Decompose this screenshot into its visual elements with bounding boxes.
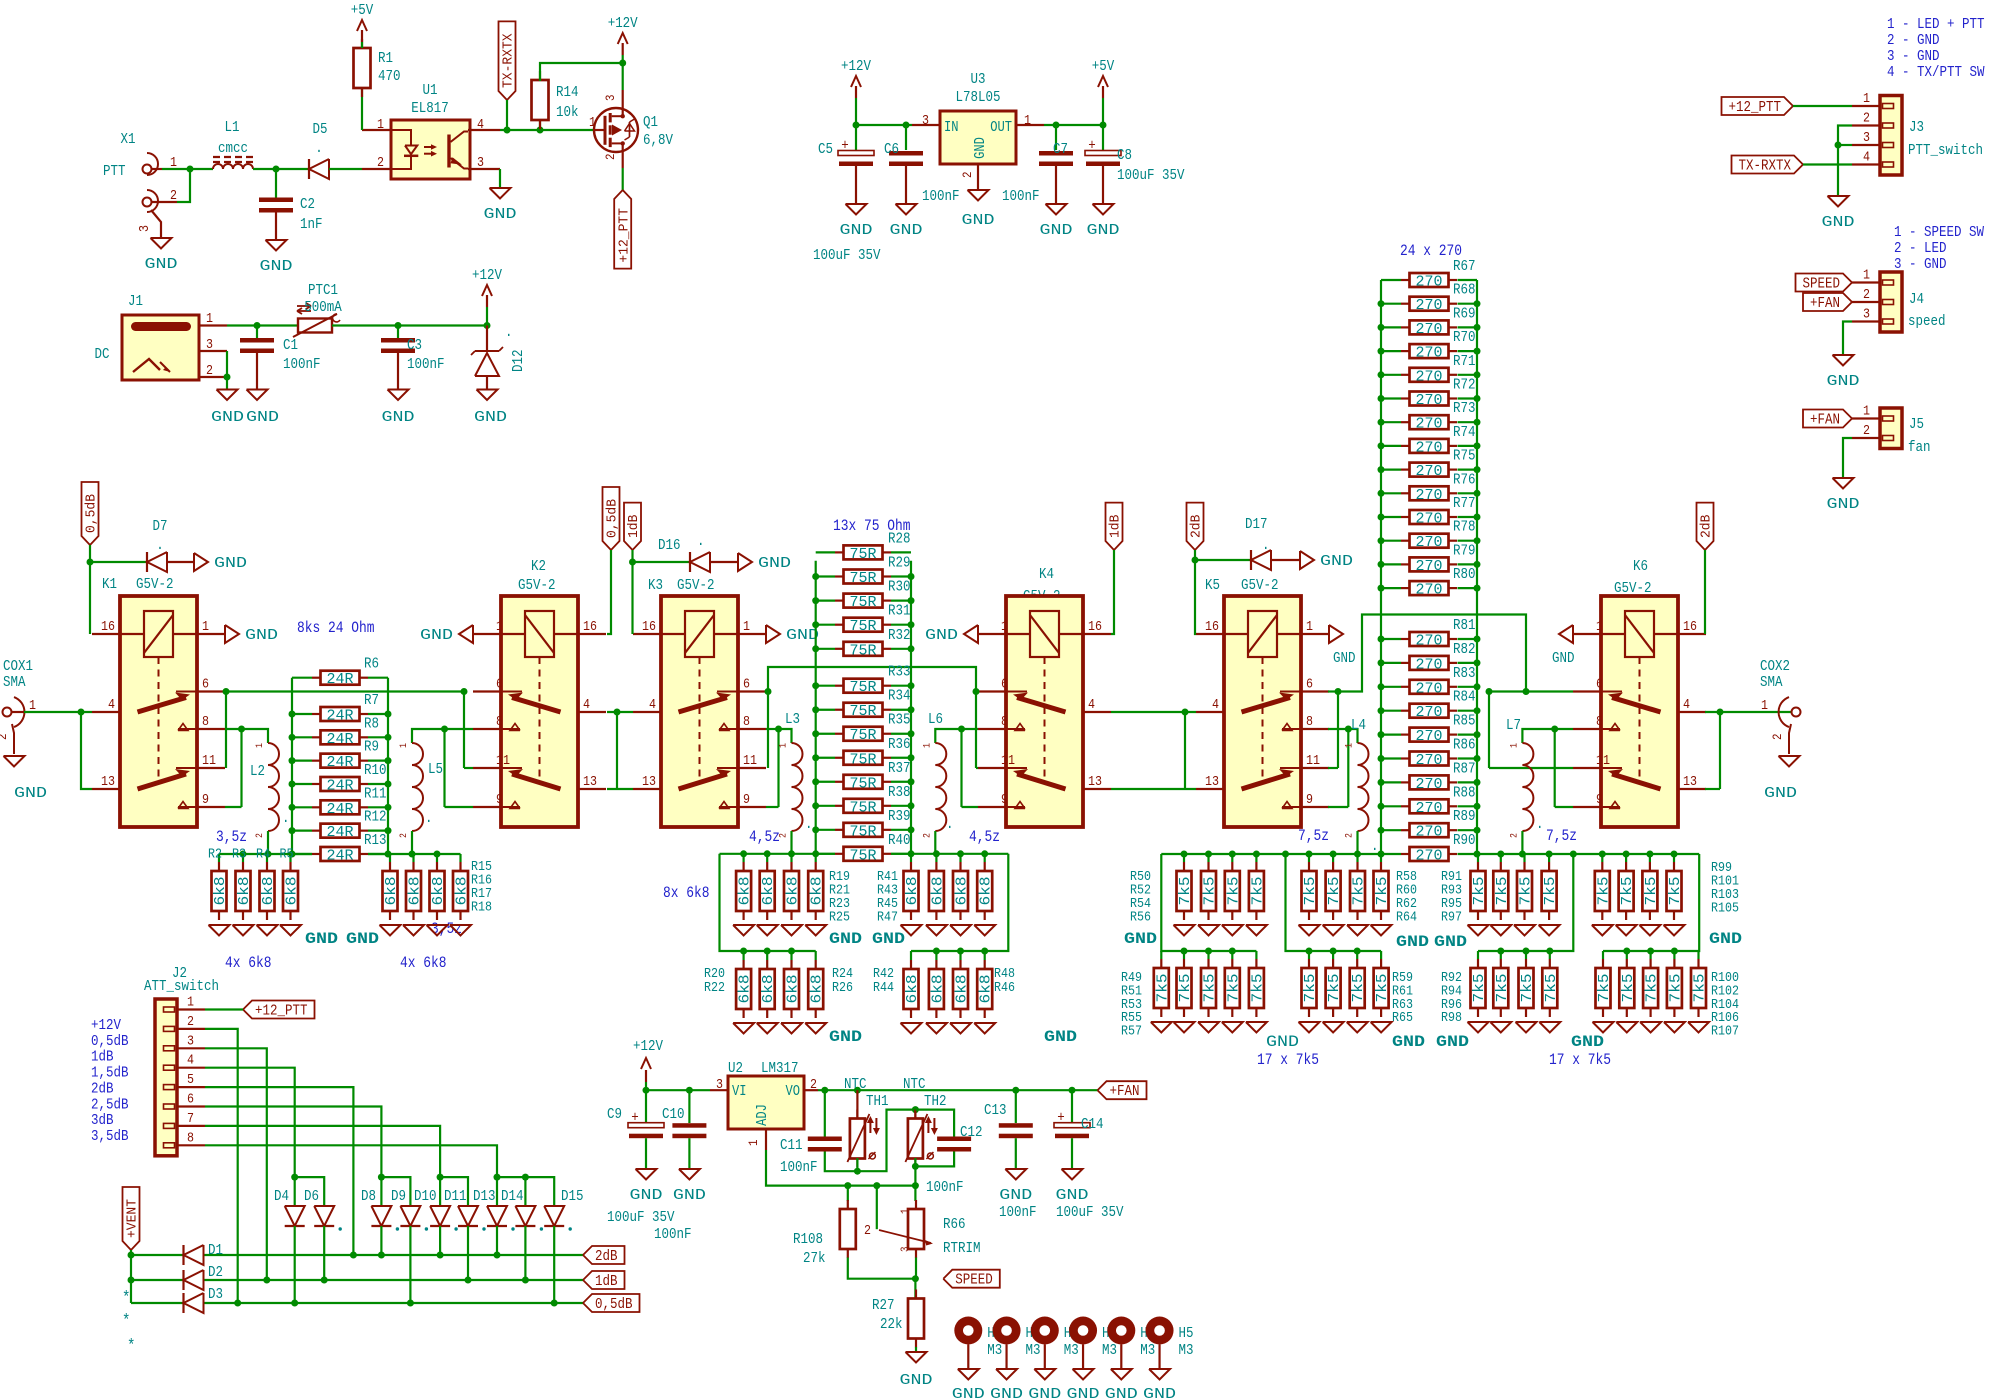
svg-text:270: 270 (1416, 634, 1443, 650)
resistor R106 7k5 (1673, 951, 1675, 959)
wire 75R row left (816, 575, 835, 577)
capacitor C7 100nF (1055, 125, 1057, 150)
svg-text:K6: K6 (1633, 558, 1648, 575)
node bottom bus cell2 left (812, 850, 819, 857)
node junction D7 (87, 559, 94, 566)
svg-text:3,5z: 3,5z (216, 828, 247, 846)
svg-text:D11: D11 (444, 1188, 467, 1205)
wire J2 pin8 staircase (205, 1145, 497, 1206)
svg-text:0,5dB: 0,5dB (84, 494, 100, 533)
resistor R101 7k5 (1625, 854, 1627, 862)
svg-text:6k8: 6k8 (408, 877, 424, 906)
svg-text:24R: 24R (327, 732, 354, 748)
resistor R90 inline wires (1381, 853, 1401, 855)
node 270 right bus (1474, 659, 1481, 666)
resistor R13 24R (312, 853, 321, 855)
wire 75R row left (816, 829, 835, 831)
wire 270 row right (1458, 733, 1478, 735)
svg-text:G5V-2: G5V-2 (1241, 577, 1279, 594)
svg-text:D9: D9 (391, 1188, 406, 1205)
node 270 right bus (1474, 490, 1481, 497)
resistor R50 7k5 (1183, 854, 1185, 862)
svg-text:+: + (841, 138, 849, 155)
svg-text:7k5: 7k5 (1519, 877, 1535, 906)
node junction J1 pin2 (224, 374, 231, 381)
ground R102 (1616, 1022, 1637, 1033)
resistor R78 270 (1401, 540, 1410, 542)
svg-text:SPEED: SPEED (1803, 275, 1841, 292)
svg-text:PTT: PTT (103, 163, 126, 180)
svg-text:+12V: +12V (608, 15, 638, 32)
svg-text:GND: GND (840, 222, 873, 239)
node 270 right bus (1474, 300, 1481, 307)
resistor R21 6k8 (766, 854, 768, 862)
svg-text:Q1: Q1 (643, 114, 658, 131)
wire 24R left bus (291, 678, 293, 854)
svg-text:7k5: 7k5 (1644, 877, 1660, 906)
resistor R80 270 (1401, 587, 1410, 589)
ground R2 (209, 925, 230, 936)
diode D4 (285, 1206, 305, 1226)
wire 24R row left (292, 760, 312, 762)
node bottom bus cell3 left (1229, 851, 1236, 858)
svg-text:TH2: TH2 (924, 1093, 947, 1110)
svg-text:R36: R36 (888, 736, 911, 753)
node junction K6 pin6 (1486, 688, 1493, 695)
svg-text:L3: L3 (785, 711, 800, 728)
wire 75R row left (816, 853, 835, 855)
node cell3 bank2 bus a (1229, 948, 1236, 955)
svg-text:1: 1 (779, 743, 790, 748)
svg-text:D1: D1 (208, 1242, 223, 1259)
ground C10 (679, 1169, 700, 1180)
svg-text:13: 13 (1088, 774, 1102, 790)
svg-text:75R: 75R (850, 728, 877, 744)
node 75R right bus (908, 573, 915, 580)
node bottom bus cell2 right (981, 850, 988, 857)
wire 2dB row (131, 1254, 184, 1256)
svg-text:K1: K1 (102, 576, 117, 593)
svg-text:R77: R77 (1453, 495, 1476, 512)
svg-text:17 x 7k5: 17 x 7k5 (1257, 1051, 1319, 1069)
svg-text:7k5: 7k5 (1327, 974, 1343, 1003)
svg-text:PTC1: PTC1 (308, 282, 338, 299)
capacitor C5 100uF 35V (855, 125, 857, 150)
diode D6 (314, 1206, 334, 1226)
node 270 left bus (1378, 636, 1385, 643)
pin stubs U3 (1016, 124, 1044, 126)
node bottom bus cell2 left (740, 850, 747, 857)
svg-text:6k8: 6k8 (930, 877, 946, 906)
node 24R right bus (385, 780, 392, 787)
wire 24R row left (292, 830, 312, 832)
node junction K5 pin8 (1345, 726, 1352, 733)
node cell3 bank2 bus a (1205, 948, 1212, 955)
ground J4 (1833, 355, 1854, 366)
svg-text:1,5dB: 1,5dB (91, 1065, 129, 1082)
svg-text:11: 11 (1306, 753, 1320, 769)
node junction +12V Q1 (619, 60, 626, 67)
ground H4 (1111, 1369, 1132, 1380)
svg-text:R35: R35 (888, 712, 911, 729)
svg-text:1: 1 (1509, 743, 1520, 748)
resistor R27 22k (914, 1279, 916, 1299)
pin stubs U1 (362, 129, 392, 131)
node 270 right bus (1474, 561, 1481, 568)
svg-text:R67: R67 (1453, 258, 1476, 275)
svg-text:11: 11 (1001, 753, 1015, 769)
wire J2 pin4 staircase (205, 1068, 295, 1206)
resistor R92 7k5 (1477, 951, 1479, 959)
resistor R24 6k8 (790, 951, 792, 960)
node 270 left bus (1378, 561, 1385, 568)
svg-text:.: . (425, 810, 433, 827)
connector X1 PTT jack (143, 165, 152, 174)
resistor R82 270 (1401, 662, 1410, 664)
diode D11 (458, 1206, 478, 1226)
ground D16 arrow (738, 553, 752, 571)
power +5V (361, 42, 363, 48)
svg-text:270: 270 (1416, 464, 1443, 480)
svg-text:.: . (1536, 816, 1544, 833)
svg-text:2: 2 (187, 1014, 194, 1030)
svg-text:R89: R89 (1453, 808, 1476, 825)
svg-text:7k5: 7k5 (1226, 974, 1242, 1003)
ground R101 (1616, 925, 1637, 936)
ground R16 (403, 925, 424, 936)
svg-text:R31: R31 (888, 603, 911, 620)
wire J1 pin3 to pin2 gnd (226, 351, 228, 390)
resistor R30 75R (835, 599, 844, 601)
svg-text:R80: R80 (1453, 566, 1476, 583)
svg-text:R29: R29 (888, 555, 911, 572)
svg-text:7k5: 7k5 (1375, 877, 1391, 906)
resistor R74 270 (1401, 445, 1410, 447)
svg-text:8: 8 (1001, 714, 1008, 730)
wire Q1 source to +12_PTT (622, 168, 624, 190)
node bank2 bus cell2 right (981, 948, 988, 955)
wire 1dB to K3 pin16 (631, 550, 633, 634)
resistor R67 270 (1401, 279, 1410, 281)
ground R42 (901, 1023, 922, 1034)
wire 270 left bus (1380, 280, 1382, 854)
svg-text:J3: J3 (1909, 119, 1924, 136)
svg-text:R56: R56 (1130, 910, 1151, 926)
svg-text:GND: GND (673, 1187, 706, 1204)
svg-text:6k8: 6k8 (761, 975, 777, 1004)
resistor R81 270 (1401, 638, 1410, 640)
wire K6 pin8 to pin9 (1555, 728, 1573, 730)
resistor R31 75R (835, 624, 844, 626)
ground R59 (1299, 1022, 1320, 1033)
ground R49 (1151, 1022, 1172, 1033)
wire U3 out to +5V (1044, 124, 1103, 126)
svg-text:C7: C7 (1053, 141, 1068, 158)
svg-text:R33: R33 (888, 664, 911, 681)
svg-text:IN: IN (944, 120, 959, 136)
wire 270 row left (1381, 662, 1401, 664)
svg-text:G5V-2: G5V-2 (677, 577, 715, 594)
svg-text:1: 1 (496, 619, 503, 635)
svg-text:3,5dB: 3,5dB (91, 1128, 129, 1145)
node 270 left bus (1378, 442, 1385, 449)
svg-text:GND: GND (1105, 1386, 1138, 1398)
svg-text:GND: GND (999, 1187, 1032, 1204)
svg-text:SPEED: SPEED (955, 1272, 993, 1289)
ground K4 pin1 arrow (964, 625, 978, 643)
capacitor C14 100uF 35V (1069, 1087, 1076, 1094)
ground R60 (1323, 925, 1344, 936)
trimmer R66 RTRIM (914, 1186, 916, 1201)
node 24R left bus (289, 711, 296, 718)
resistor R33 75R (835, 685, 844, 687)
wire 24R row left (292, 677, 312, 679)
ground R21 (757, 925, 778, 936)
wire 75R row left (816, 709, 835, 711)
wire bottom bus cell3 left (1161, 853, 1381, 855)
resistor R87 270 (1401, 781, 1410, 783)
svg-text:L1: L1 (225, 119, 240, 136)
wire K1 pin6 to pin11 (225, 692, 227, 769)
node bottom bus cell3 right (1570, 851, 1577, 858)
svg-text:.: . (697, 533, 705, 550)
ground R24 (781, 1023, 802, 1034)
svg-text:11: 11 (496, 753, 510, 769)
ground C3 (388, 390, 409, 401)
svg-text:GND: GND (890, 222, 923, 239)
capacitor C10 100nF (688, 1090, 690, 1123)
resistor R45 6k8 (959, 854, 961, 862)
svg-text:8x 6k8: 8x 6k8 (663, 884, 710, 902)
svg-text:2dB: 2dB (1699, 515, 1715, 538)
node bottom bus cell3 left (1354, 851, 1361, 858)
svg-text:1 - LED + PTT: 1 - LED + PTT (1887, 16, 1985, 33)
ground R104 (1640, 1022, 1661, 1033)
connector J4 speed (1880, 272, 1902, 332)
wire J2 pin7 staircase (205, 1126, 440, 1206)
diode D13 (487, 1206, 507, 1226)
node junction C3 (395, 322, 402, 329)
svg-text:M3: M3 (1064, 1342, 1079, 1359)
svg-text:R87: R87 (1453, 760, 1476, 777)
svg-text:2dB: 2dB (595, 1248, 618, 1265)
resistor R75 270 (1401, 469, 1410, 471)
svg-text:J4: J4 (1909, 291, 1924, 308)
wire 75R row left (816, 805, 835, 807)
node cell3 bank2 bus d (1647, 948, 1654, 955)
node 270 left bus (1378, 419, 1385, 426)
svg-text:D5: D5 (313, 121, 328, 138)
svg-text:7k5: 7k5 (1645, 974, 1661, 1003)
svg-text:R105: R105 (1711, 901, 1739, 917)
wire 0,5dB to K2 pin16 (607, 550, 611, 634)
wire 270 row right (1458, 757, 1478, 759)
global label 2dB K5 (1187, 503, 1204, 550)
resistor R65 7k5 (1380, 951, 1382, 959)
wire bottom bus cell2 right (891, 853, 1008, 855)
svg-text:R68: R68 (1453, 282, 1476, 299)
resistor R62 7k5 (1356, 854, 1358, 862)
svg-text:100uF 35V: 100uF 35V (1117, 167, 1185, 184)
svg-text:+VENT: +VENT (125, 1199, 141, 1238)
diode D8 (371, 1206, 391, 1226)
svg-text:GND: GND (420, 627, 453, 644)
node cell3 bank2 bus b (1354, 948, 1361, 955)
svg-text:C14: C14 (1081, 1116, 1104, 1133)
wire 270 row right (1458, 710, 1478, 712)
node 270 right bus (1474, 466, 1481, 473)
svg-text:1: 1 (1863, 91, 1870, 107)
svg-text:RTRIM: RTRIM (943, 1240, 981, 1257)
svg-text:1: 1 (746, 1139, 761, 1146)
node 270 right bus (1474, 755, 1481, 762)
wire 270 row left (1381, 805, 1401, 807)
wire 24R row right (368, 736, 388, 738)
ground C5 (846, 204, 867, 215)
svg-text:R81: R81 (1453, 617, 1476, 634)
resistor R96 7k5 (1525, 951, 1527, 959)
svg-text:9: 9 (1001, 792, 1008, 808)
wire K6 pin6 to pin11 (1488, 692, 1490, 769)
node bottom bus cell3 right (1546, 851, 1553, 858)
node 75R right bus (908, 826, 915, 833)
svg-text:6k8: 6k8 (786, 975, 802, 1004)
ground R20 (733, 1023, 754, 1034)
svg-text:R72: R72 (1453, 377, 1476, 394)
wire 270 row right (1458, 781, 1478, 783)
wire Q1 drain (622, 63, 624, 90)
svg-text:R38: R38 (888, 784, 911, 801)
resistor R32 75R (835, 648, 844, 650)
svg-text:2: 2 (255, 833, 266, 838)
ground R58 (1299, 925, 1320, 936)
global label +12_PTT vertical (614, 190, 631, 269)
resistor R69 270 (1401, 326, 1410, 328)
svg-text:C6: C6 (884, 141, 899, 158)
resistor R60 7k5 (1332, 854, 1334, 862)
ground R23 (781, 925, 802, 936)
svg-text:R30: R30 (888, 579, 911, 596)
wire 270 row right (1458, 303, 1478, 305)
node 270 left bus (1378, 707, 1385, 714)
wire 1dB to K4 pin16 (1111, 550, 1114, 634)
svg-text:R14: R14 (556, 84, 579, 101)
node 75R left bus (812, 730, 819, 737)
resistor R83 270 (1401, 686, 1410, 688)
wire cell2 bank2 left leg (720, 854, 816, 951)
svg-text:6k8: 6k8 (738, 877, 754, 906)
node 75R left bus (812, 706, 819, 713)
wire 270 row left (1381, 303, 1401, 305)
ground R17 (427, 925, 448, 936)
ground R56 (1246, 925, 1267, 936)
wire bottom bus cell3 right (1477, 853, 1699, 855)
node 24R right bus (385, 711, 392, 718)
svg-text:GND: GND (1396, 933, 1429, 951)
svg-text:R1: R1 (378, 50, 393, 67)
ground R51 (1174, 1022, 1195, 1033)
svg-text:6: 6 (187, 1092, 194, 1108)
svg-text:2: 2 (864, 1223, 871, 1239)
svg-text:VI: VI (732, 1084, 747, 1100)
ground R93 (1490, 925, 1511, 936)
svg-text:270: 270 (1416, 849, 1443, 865)
node bottom bus cell3 right (1671, 851, 1678, 858)
svg-text:1: 1 (1345, 743, 1356, 748)
svg-text:U2: U2 (728, 1060, 743, 1077)
svg-text:11: 11 (743, 753, 757, 769)
svg-text:GND: GND (1392, 1033, 1425, 1051)
svg-text:4: 4 (187, 1053, 194, 1069)
svg-text:R88: R88 (1453, 784, 1476, 801)
svg-text:L7: L7 (1506, 717, 1521, 734)
global label 1dB K3 (624, 503, 641, 550)
svg-text:R22: R22 (704, 980, 725, 996)
node 24R left bus (289, 827, 296, 834)
svg-text:8: 8 (743, 714, 750, 730)
ground U1 pin3 (490, 188, 511, 199)
resistor R104 7k5 (1649, 951, 1651, 959)
svg-text:VO: VO (786, 1084, 801, 1100)
wire cell3 left bank down leg (1161, 854, 1256, 951)
node 270 left bus (1378, 371, 1385, 378)
resistor R7 24R (312, 713, 321, 715)
wire K2 pin6 to pin11 (463, 692, 465, 769)
svg-text:R3: R3 (232, 847, 246, 863)
svg-text:G5V-2: G5V-2 (518, 577, 556, 594)
svg-text:R70: R70 (1453, 329, 1476, 346)
node 75R right bus (908, 730, 915, 737)
wire K1 pin8 node (238, 726, 245, 733)
wire 24R row left (292, 736, 312, 738)
global label TX-RXTX to J3 (1732, 156, 1804, 174)
node junction D17 (1192, 557, 1199, 564)
svg-text:1: 1 (187, 995, 194, 1011)
ground R100 (1593, 1022, 1614, 1033)
svg-text:R28: R28 (888, 530, 911, 547)
svg-text:6k8: 6k8 (905, 877, 921, 906)
wire 270 row left (1381, 587, 1401, 589)
svg-text:7k5: 7k5 (1351, 974, 1367, 1003)
fuse PTC1 500mA (298, 319, 332, 333)
wire X1 pin1 to L1 (152, 168, 163, 170)
svg-text:6: 6 (202, 677, 209, 693)
svg-text:6: 6 (1596, 677, 1603, 693)
svg-text:R85: R85 (1453, 713, 1476, 730)
svg-text:6k8: 6k8 (786, 877, 802, 906)
svg-text:R57: R57 (1121, 1024, 1142, 1040)
svg-text:6k8: 6k8 (237, 877, 253, 906)
svg-text:24R: 24R (327, 848, 354, 864)
capacitor C8 100uF 35V (1102, 125, 1104, 150)
svg-text:J1: J1 (128, 293, 143, 310)
wire 270 row right (1458, 516, 1478, 518)
svg-text:13: 13 (1205, 774, 1219, 790)
ground K2 pin1 arrow (459, 625, 473, 643)
svg-text:C10: C10 (662, 1106, 685, 1123)
node junction C1 (254, 322, 261, 329)
resistor R43 6k8 (935, 854, 937, 862)
ground H1 (996, 1369, 1017, 1380)
node cell3 bank2 bus d (1671, 948, 1678, 955)
resistor R108 27k (847, 1186, 849, 1201)
global label +FAN to J5 (1803, 410, 1852, 428)
coax COX2 SMA (1792, 708, 1801, 717)
wire 270 row right (1458, 805, 1478, 807)
svg-text:D2: D2 (208, 1264, 223, 1281)
svg-text:3: 3 (1863, 130, 1870, 146)
svg-text:GND: GND (474, 409, 507, 426)
